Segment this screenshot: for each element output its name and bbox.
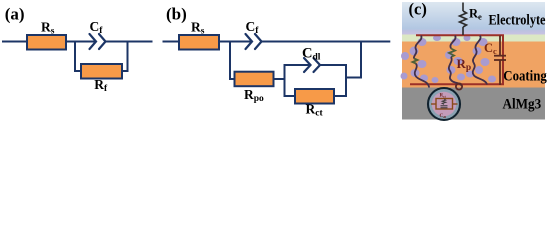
resistor Rs: [27, 35, 66, 50]
wire: after CPE Cf to right end: [262, 41, 390, 43]
svg-text:Rct: Rct: [440, 94, 447, 99]
wire: left lead into Rs: [3, 41, 28, 43]
substrate AlMg3 layer: [402, 88, 545, 120]
svg-text:Coating: Coating: [503, 69, 547, 85]
tiny capacitor plates: [441, 105, 448, 107]
purple blobs in coating: [401, 35, 497, 83]
tiny resistor zigzag: [442, 99, 446, 104]
pore path squiggle 1: [413, 36, 430, 88]
CPE Cf (b): [246, 34, 262, 49]
wire: exit of inner loop up to top wire: [346, 42, 361, 78]
CPE Cf (chevron symbol): [90, 34, 106, 49]
resistor Rpo: [235, 72, 274, 87]
wire: Rs to CPE Cf: [65, 41, 94, 43]
resistor Rct: [295, 89, 334, 104]
maroon circuit frame (coating cell boundary): [410, 35, 503, 84]
resistor Rs (b): [179, 35, 219, 50]
svg-text:(c): (c): [409, 0, 427, 18]
zoom ellipse with interface equivalent circuit: [428, 88, 460, 120]
wire: outer loop left vertical down to Rpo branch: [230, 42, 235, 80]
pale oxide band: [402, 35, 545, 42]
wire: inner loop top branch to CPE Cdl: [285, 64, 309, 66]
wire: loop right vertical: [122, 42, 128, 72]
capacitor Cc: [494, 36, 506, 86]
wire: inner loop right vertical: [345, 65, 347, 96]
resistor Rf: [81, 64, 122, 79]
resistor Re (electrolyte resistance): [460, 3, 467, 36]
wire: loop left vertical: [75, 42, 81, 72]
wire: after CPE Cf to right end: [106, 41, 152, 43]
svg-text:(a): (a): [5, 4, 25, 23]
coating layer: [402, 42, 545, 88]
svg-text:(b): (b): [166, 5, 187, 24]
svg-text:Cdl: Cdl: [440, 114, 447, 119]
wire: Rs to CPE Cf: [218, 41, 250, 43]
svg-text:Electrolyte: Electrolyte: [489, 13, 546, 29]
pore path squiggle 2: [449, 36, 462, 90]
wire: left lead into Rs: [164, 41, 181, 43]
pore path squiggle 3: [473, 36, 487, 85]
wire: Rpo to inner loop: [274, 78, 285, 80]
svg-text:AlMg3: AlMg3: [503, 97, 542, 113]
wire: inner loop top branch after Cdl: [320, 64, 346, 66]
wire: inner loop left vertical: [284, 65, 286, 96]
CPE Cdl: [304, 58, 320, 72]
electrolyte layer: [402, 2, 545, 35]
wire: Rct to inner loop right vertical: [334, 95, 346, 97]
tiny circuit wires: [431, 99, 458, 110]
wire: inner loop bottom branch to Rct: [285, 95, 296, 97]
